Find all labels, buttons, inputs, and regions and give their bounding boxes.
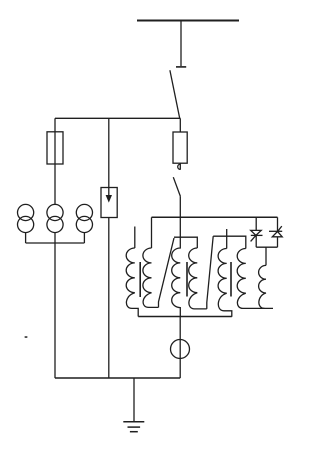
winding W2 (reactor L1 right coil) — [143, 248, 159, 307]
wire: thyristor branch left drop — [255, 217, 257, 230]
thyristor V2 (conducting up) — [272, 232, 282, 237]
wire: bar linking arrow 2 to winding W6 — [213, 236, 246, 248]
winding W5 (reactor L3 left coil) — [218, 249, 232, 317]
winding W2 lead from bus — [151, 217, 153, 248]
voltage transformer TV right pair — [76, 204, 92, 220]
instrument circle (ammeter) — [171, 340, 190, 359]
winding W1 (reactor L1 left coil) — [126, 248, 138, 317]
wire: thyristor bottom bar — [256, 246, 277, 248]
bus node B (horizontal feeder) — [55, 117, 180, 119]
disconnector QS2 contact hook — [178, 163, 181, 170]
wire: bottom bus — [55, 377, 180, 379]
thyristor V1 (conducting down) — [251, 230, 262, 235]
scan speck — [24, 336, 27, 338]
voltage transformer TV left pair — [18, 204, 34, 220]
winding W4 (reactor L2 right coil) — [189, 248, 207, 309]
wire: arrester to bottom bus — [108, 218, 110, 379]
wire: stub to winding W7 — [265, 247, 267, 265]
disconnector QS1 stationary contact bar — [176, 66, 186, 68]
wire: thyristor branch right drop — [277, 217, 279, 231]
wire: ground lead — [133, 378, 135, 422]
winding W7 (coil in series with thyristors) — [259, 265, 266, 308]
wire: feeder below bus to fuse FU2 — [179, 118, 181, 132]
wire: drop from top bus — [180, 21, 182, 67]
top busbar — [137, 20, 239, 22]
wire: down to instrument — [179, 317, 181, 379]
thyristor V2 gate — [278, 226, 282, 231]
tap arrow 2 — [207, 236, 213, 309]
wire: bar linking arrow 1 to winding W4 — [174, 237, 197, 248]
core bar of L2 — [186, 262, 188, 297]
wire: bottom bus of reactor coils — [138, 316, 232, 318]
disconnector QS2 blade — [173, 177, 180, 196]
voltage transformer TV middle pair — [47, 204, 63, 220]
winding W6 (reactor L3 right coil) — [237, 249, 246, 309]
wire: bottom link W6-W7 — [243, 307, 273, 309]
surge arrester FV body — [101, 188, 117, 218]
bus node C (secondary horizontal bus) — [152, 216, 278, 218]
wire: left leg down to bottom bus — [54, 233, 56, 378]
wire: TV bottom stubs and bracket — [26, 233, 85, 243]
wire: left leg down to fuse FU1 — [54, 118, 56, 204]
fuse FU1 — [47, 132, 63, 164]
wire: main feeder down to junction — [179, 196, 181, 217]
ground — [123, 421, 144, 423]
fuse FU2 — [173, 132, 187, 163]
thyristor V1 cathode bar — [251, 234, 263, 236]
core bar of L1 — [139, 262, 141, 297]
surge arrester FV arrow — [106, 195, 112, 203]
winding W5 top stub — [226, 229, 228, 249]
core bar of L3 — [230, 262, 232, 297]
surge arrester FV lead — [108, 118, 110, 196]
disconnector QS1 blade — [170, 70, 180, 118]
winding W3 (reactor L2 left coil, on main feeder) — [172, 217, 181, 316]
thyristor V2 anode bar — [269, 230, 282, 232]
winding W1 top stub — [134, 227, 136, 249]
wire: V1 to bottom bar — [255, 235, 257, 247]
wire: V2 to bottom bar — [277, 237, 279, 247]
thyristor V1 gate — [251, 235, 256, 241]
tap arrow 1 — [159, 238, 175, 307]
